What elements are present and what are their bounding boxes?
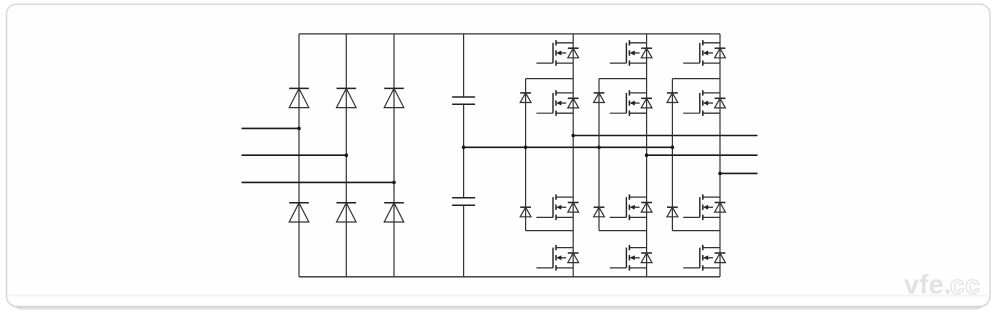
wire: neutral rail xyxy=(464,146,673,148)
wire: AC input phase C xyxy=(242,181,395,183)
faint inner rule xyxy=(9,295,988,297)
svg-text:vfe.: vfe. xyxy=(904,270,952,300)
diode D6 xyxy=(384,203,404,222)
diode DC2 (clamp lower) xyxy=(520,207,531,217)
watermark vfe.cc xyxy=(904,270,981,300)
diode DQ10 (body) xyxy=(715,98,726,108)
wire: capacitor branch lower xyxy=(463,205,465,276)
transistor Q5 xyxy=(610,40,647,66)
node: DC midpoint xyxy=(462,146,466,150)
diode D1 xyxy=(289,88,309,107)
wire: inverter leg C switch column xyxy=(719,34,721,277)
node: input junction B xyxy=(345,153,349,157)
diode DQ11 (body) xyxy=(715,203,726,213)
transistor Q12 xyxy=(683,245,720,271)
wire: leg B clamp column xyxy=(598,79,600,231)
transistor Q6 xyxy=(610,90,647,116)
transistor Q2 xyxy=(536,90,573,116)
transistor Q7 xyxy=(610,194,647,220)
diode DC1 (clamp upper) xyxy=(520,93,531,103)
svg-text:cc: cc xyxy=(950,270,981,300)
diode DQ2 (body) xyxy=(568,98,579,108)
wire: leg C lower midpoint tap xyxy=(672,230,720,232)
node: input junction C xyxy=(392,181,396,185)
transistor Q8 xyxy=(610,245,647,271)
diode D4 xyxy=(289,203,309,222)
wire: AC input phase B xyxy=(242,154,347,156)
wire: leg C clamp column xyxy=(671,79,673,231)
wire: inverter leg A switch column xyxy=(572,34,574,277)
node: leg A output junction xyxy=(571,134,575,138)
transistor Q3 xyxy=(536,194,573,220)
node: leg A neutral junction xyxy=(524,146,528,150)
wire: leg A clamp column xyxy=(525,79,527,231)
diode D5 xyxy=(337,203,357,222)
wire: inverter leg B switch column xyxy=(646,34,648,277)
diode DQ4 (body) xyxy=(568,253,579,263)
diode DC5 (clamp upper) xyxy=(667,93,678,103)
diode DQ1 (body) xyxy=(568,48,579,58)
transistor Q11 xyxy=(683,194,720,220)
wire: DC- bottom bus xyxy=(299,276,720,278)
diode DQ8 (body) xyxy=(641,253,652,263)
transistor Q10 xyxy=(683,90,720,116)
node: leg C neutral junction xyxy=(671,146,675,150)
wire: DC+ top bus xyxy=(299,33,720,35)
diode DQ5 (body) xyxy=(641,48,652,58)
diode DQ6 (body) xyxy=(641,98,652,108)
wire: output phase B xyxy=(647,154,758,156)
diode DQ7 (body) xyxy=(641,203,652,213)
wire: leg B upper midpoint tap xyxy=(599,78,647,80)
diode D3 xyxy=(384,88,404,107)
wire: leg A lower midpoint tap xyxy=(526,230,574,232)
wire: AC input phase A xyxy=(242,127,300,129)
capacitor C1 xyxy=(452,97,475,104)
transistor Q9 xyxy=(683,40,720,66)
node: leg B neutral junction xyxy=(597,146,601,150)
transistor Q4 xyxy=(536,245,573,271)
wire: leg A upper midpoint tap xyxy=(526,78,574,80)
diode DC3 (clamp upper) xyxy=(594,93,605,103)
wire: output phase C xyxy=(720,172,758,174)
capacitor C2 xyxy=(452,198,475,206)
diode DQ12 (body) xyxy=(715,253,726,263)
wire: capacitor branch middle xyxy=(463,104,465,198)
wire: rectifier leg 3 xyxy=(393,34,395,277)
wire: rectifier leg 1 xyxy=(298,34,300,277)
wire: output phase A xyxy=(573,135,757,137)
diode DC4 (clamp lower) xyxy=(594,207,605,217)
diode DQ3 (body) xyxy=(568,203,579,213)
wire: leg B lower midpoint tap xyxy=(599,230,647,232)
wire: rectifier leg 2 xyxy=(345,34,347,277)
diode DC6 (clamp lower) xyxy=(667,207,678,217)
transistor Q1 xyxy=(536,40,573,66)
node: leg C output junction xyxy=(718,172,722,176)
diode D2 xyxy=(337,88,357,107)
wire: capacitor branch upper xyxy=(463,34,465,97)
diode DQ9 (body) xyxy=(715,48,726,58)
wire: leg C upper midpoint tap xyxy=(672,78,720,80)
node: input junction A xyxy=(297,127,301,131)
node: leg B output junction xyxy=(645,153,649,157)
